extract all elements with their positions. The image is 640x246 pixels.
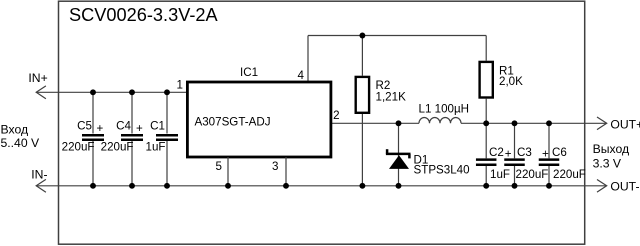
svg-text:220uF: 220uF	[553, 168, 586, 181]
svg-text:SCV0026-3.3V-2A: SCV0026-3.3V-2A	[69, 5, 218, 25]
junction C1 / IN+ rail	[164, 89, 170, 95]
label output Выход 3.3 V	[593, 142, 629, 170]
svg-text:2: 2	[333, 109, 339, 122]
svg-text:C2: C2	[489, 146, 504, 159]
junction pin3 / bottom rail	[283, 183, 289, 189]
svg-text:IN+: IN+	[28, 71, 47, 85]
svg-text:3: 3	[272, 160, 278, 173]
port arrow OUT+	[597, 117, 607, 130]
junction pin5 / bottom rail	[225, 183, 231, 189]
svg-text:+: +	[97, 122, 104, 135]
label input Вход 5..40 V	[1, 123, 40, 150]
wire IN+ rail	[36, 91, 187, 93]
svg-text:Выход: Выход	[593, 142, 629, 156]
capacitor C2	[476, 123, 497, 186]
op-amp IC1 A307SGT-ADJ body	[187, 82, 331, 157]
svg-text:C5: C5	[77, 120, 92, 133]
capacitor C4	[121, 92, 143, 186]
svg-text:STPS3L40: STPS3L40	[414, 164, 470, 177]
svg-text:OUT-: OUT-	[610, 180, 639, 194]
svg-text:C3: C3	[517, 146, 532, 159]
junction C6 / bottom rail	[546, 183, 552, 189]
svg-text:1,21K: 1,21K	[376, 90, 407, 103]
svg-text:C6: C6	[552, 146, 567, 159]
svg-text:+: +	[542, 148, 549, 161]
svg-text:IN-: IN-	[31, 167, 47, 181]
svg-text:A307SGT-ADJ: A307SGT-ADJ	[195, 116, 271, 129]
diode D1 schottky	[386, 123, 411, 186]
junction R2 / feedback wire	[359, 33, 365, 39]
svg-text:C1: C1	[150, 120, 165, 133]
svg-text:220uF: 220uF	[62, 140, 95, 153]
junction C4 / IN+ rail	[129, 89, 135, 95]
svg-text:1uF: 1uF	[146, 140, 166, 153]
capacitor C6	[539, 123, 560, 186]
wire pin4 vertical	[307, 36, 309, 83]
junction C6 / mid rail	[546, 120, 552, 126]
svg-text:2,0K: 2,0K	[499, 75, 523, 88]
svg-text:C4: C4	[116, 120, 131, 133]
junction C4 / bottom rail	[129, 183, 135, 189]
svg-text:5: 5	[216, 160, 222, 173]
capacitor C5	[82, 92, 104, 186]
svg-text:5..40 V: 5..40 V	[1, 136, 40, 150]
junction C5 / bottom rail	[90, 183, 96, 189]
capacitor C1	[156, 92, 178, 186]
junction D1 / mid rail	[396, 120, 402, 126]
wire bottom rail IN- / OUT-	[36, 185, 607, 187]
port arrow IN-	[36, 179, 46, 192]
wire pin 3 stub	[285, 157, 287, 186]
svg-text:220uF: 220uF	[516, 168, 549, 181]
svg-text:IC1: IC1	[240, 66, 258, 79]
junction R1-C2 / mid rail	[483, 120, 489, 126]
wire feedback top	[308, 35, 486, 37]
capacitor C3	[504, 123, 525, 186]
svg-text:4: 4	[298, 69, 305, 82]
junction R2 / bottom rail	[359, 183, 365, 189]
svg-text:Вход: Вход	[1, 123, 29, 137]
svg-text:+: +	[505, 148, 512, 161]
junction C1 / bottom rail	[164, 183, 170, 189]
junction C5 / IN+ rail	[90, 89, 96, 95]
svg-text:1uF: 1uF	[490, 168, 510, 181]
resistor R1	[480, 36, 493, 124]
junction C2 / bottom rail	[483, 183, 489, 189]
svg-text:OUT+: OUT+	[610, 118, 640, 132]
svg-text:1: 1	[177, 79, 183, 92]
inductor L1	[419, 117, 461, 123]
svg-text:L1 100µH: L1 100µH	[419, 102, 470, 115]
svg-text:3.3 V: 3.3 V	[593, 157, 622, 171]
wire mid rail L1 to OUT+	[461, 122, 607, 124]
junction C3 / mid rail	[512, 120, 518, 126]
port arrow OUT-	[597, 180, 607, 193]
svg-text:+: +	[136, 122, 143, 135]
port arrow IN+	[36, 86, 46, 99]
junction D1 / bottom rail	[396, 183, 402, 189]
svg-text:220uF: 220uF	[101, 140, 134, 153]
wire mid rail IC pin2 to L1	[330, 122, 419, 124]
resistor R2	[356, 36, 369, 186]
wire pin 5 stub	[227, 157, 229, 186]
junction C3 / bottom rail	[512, 183, 518, 189]
